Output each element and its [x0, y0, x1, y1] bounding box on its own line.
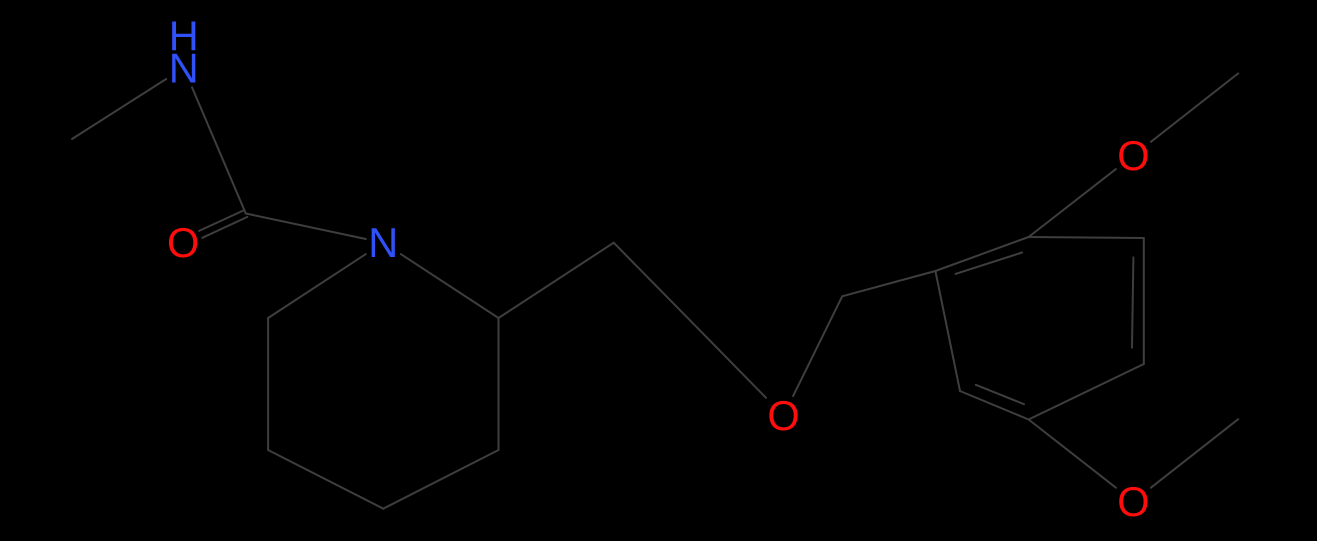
bond D-E (piperidine edge) — [498, 318, 500, 450]
bond C2r-O3 (ring to methoxy O) — [1029, 169, 1116, 237]
svg-text:N: N — [368, 219, 398, 266]
benzene edge C4r-C5r — [1029, 364, 1144, 420]
svg-text:O: O — [167, 219, 199, 266]
benzene edge C3r-C4r — [1143, 238, 1145, 364]
bond A-B (piperidine edge) — [267, 318, 269, 450]
bond N2-A (piperidine edge) — [268, 254, 366, 318]
bond O2-D2 (ether O to benzylic CH2) — [793, 296, 842, 396]
bond E-F (chain CH2) — [499, 243, 614, 318]
svg-text:O: O — [1117, 478, 1149, 525]
bond C5r-O4 (ring to methoxy O) — [1029, 420, 1116, 488]
bond C-D (piperidine edge) — [383, 450, 498, 509]
bond D2-C1r (benzylic CH2 to benzene C1) — [842, 271, 935, 296]
aromatic inner line C5r=C6r — [976, 385, 1024, 404]
svg-text:N: N — [169, 44, 199, 91]
aromatic inner line C1r=C2r — [956, 253, 1023, 274]
bond C2-N2 (carbonyl C to piperidine N) — [246, 214, 366, 240]
bond O3-CH3 (methoxy methyl) — [1151, 73, 1238, 141]
aromatic inner line C3r=C4r — [1132, 257, 1133, 347]
bond CH3-N1 (N-methyl) — [72, 79, 166, 139]
bond F-G (chain CH2) — [614, 243, 699, 329]
benzene edge C1r-C2r — [935, 237, 1028, 271]
double bond C2=O1 (amide carbonyl, two parallel lines) — [199, 210, 244, 231]
benzene edge C5r-C6r — [960, 391, 1029, 420]
svg-text:O: O — [1117, 132, 1149, 179]
benzene edge C6r-C1r — [935, 271, 960, 391]
svg-text:O: O — [767, 392, 799, 439]
bond B-C (piperidine edge) — [268, 450, 383, 509]
bond G-O2 (chain CH2 to ether O) — [699, 329, 766, 398]
benzene edge C2r-C3r — [1029, 237, 1144, 238]
bond E-N2 (piperidine edge) — [401, 254, 499, 318]
bond N1-C2 (amide N to carbonyl C) — [192, 87, 246, 213]
bond O4-CH3 (methoxy methyl) — [1151, 419, 1238, 488]
